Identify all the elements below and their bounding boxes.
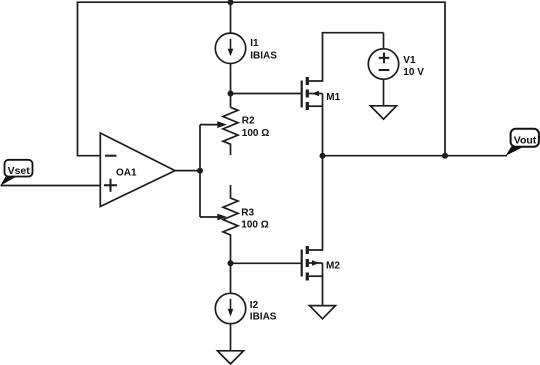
svg-text:R3: R3 [241, 208, 254, 219]
svg-text:100 Ω: 100 Ω [242, 128, 269, 139]
svg-text:IBIAS: IBIAS [250, 311, 277, 322]
svg-text:10 V: 10 V [403, 67, 424, 78]
svg-text:IBIAS: IBIAS [250, 50, 277, 61]
svg-text:OA1: OA1 [116, 167, 137, 178]
svg-text:M1: M1 [326, 92, 340, 103]
svg-text:R2: R2 [242, 116, 255, 127]
svg-text:Vset: Vset [8, 165, 31, 177]
svg-text:V1: V1 [403, 55, 416, 66]
svg-text:I1: I1 [250, 38, 259, 49]
svg-text:I2: I2 [250, 300, 259, 311]
svg-text:100 Ω: 100 Ω [241, 220, 268, 231]
svg-text:M2: M2 [326, 260, 340, 271]
svg-text:Vout: Vout [514, 135, 537, 147]
